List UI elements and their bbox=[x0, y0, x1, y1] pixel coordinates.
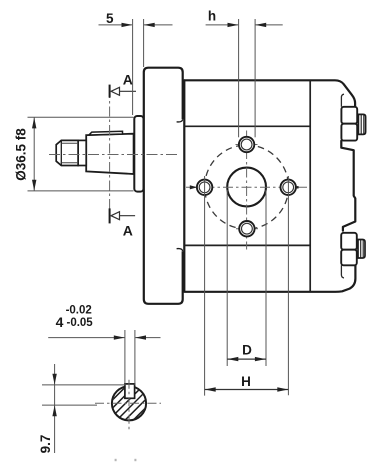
port hole left bbox=[197, 180, 212, 195]
extension line from bore right tangent down (D) bbox=[265, 190, 267, 366]
thread root lines bbox=[61, 142, 78, 144]
tapered shaft cone bbox=[86, 134, 133, 174]
centerline arrow at left hole bbox=[190, 185, 198, 189]
port hole bottom bbox=[239, 221, 254, 236]
cover edge break hook bottom bbox=[177, 249, 183, 252]
svg-text:-0.02: -0.02 bbox=[66, 305, 92, 317]
dimension H bbox=[205, 389, 289, 391]
dimension D bbox=[227, 358, 266, 360]
rear cover boundary vertical bbox=[309, 80, 311, 291]
svg-text:D: D bbox=[242, 343, 252, 358]
svg-text:A: A bbox=[123, 72, 133, 88]
centerline thick dash at right hole bbox=[296, 186, 299, 188]
port hole right bbox=[281, 180, 296, 195]
port hole top bbox=[239, 137, 254, 152]
port face: center port bore bbox=[227, 168, 266, 207]
bottom bolt stud bbox=[358, 240, 365, 259]
dimension Ø36.5 f8 bbox=[28, 117, 134, 191]
bolt boss edge bottom (with curl) bbox=[341, 265, 344, 278]
dimension 4 (keyway width, with tolerances) bbox=[48, 330, 160, 385]
body internal horizontal line upper bbox=[184, 125, 310, 127]
extension line from bore left tangent down (D) bbox=[226, 190, 228, 366]
section arrow bottom bbox=[113, 215, 135, 217]
dimension 5 (spigot width) bbox=[99, 19, 173, 115]
bolt boss edge top (with curl) bbox=[341, 94, 344, 107]
section A-A circle bbox=[112, 386, 146, 420]
shaft centerline bbox=[49, 154, 178, 156]
section centerline horizontal bbox=[95, 402, 161, 404]
mounting flange cover block bbox=[144, 68, 183, 304]
section arrow top bbox=[113, 90, 136, 92]
port face: centerline horizontal bbox=[186, 186, 308, 188]
extension line from right hole down (H) bbox=[287, 176, 289, 395]
svg-text:5: 5 bbox=[106, 11, 114, 26]
svg-text:H: H bbox=[241, 374, 251, 389]
shaft key (on taper) bbox=[89, 131, 123, 135]
port face: bolt circle (dashed) bbox=[205, 145, 289, 229]
pump body (side view right portion with port face) bbox=[184, 80, 355, 291]
svg-text:-0.05: -0.05 bbox=[66, 317, 93, 329]
section hatching bbox=[66, 378, 184, 430]
dimension h (port hole size) bbox=[206, 19, 283, 137]
svg-text:A: A bbox=[123, 223, 133, 239]
top bolt stud bbox=[358, 114, 365, 134]
top hex bolt head bbox=[341, 107, 357, 141]
threaded shaft end bbox=[56, 140, 78, 165]
section centerline vertical bbox=[128, 380, 130, 431]
shaft mid section bbox=[78, 140, 86, 165]
section keyway bbox=[125, 384, 135, 398]
section line A-A bbox=[109, 88, 111, 220]
bottom hole horizontal tick bbox=[236, 228, 258, 230]
svg-text:Ø36.5 f8: Ø36.5 f8 bbox=[14, 128, 29, 181]
svg-text:h: h bbox=[208, 8, 216, 23]
dimension 9.7 bbox=[42, 364, 125, 453]
cover edge break hook top bbox=[177, 119, 183, 122]
top hole horizontal tick bbox=[236, 144, 258, 146]
svg-text:9.7: 9.7 bbox=[38, 435, 53, 454]
flange spigot (pilot) bbox=[134, 116, 143, 192]
port face: centerline vertical bbox=[246, 131, 248, 250]
extension line from left hole down (H) bbox=[204, 176, 206, 396]
body internal horizontal line lower bbox=[184, 244, 310, 246]
bottom hex bolt head bbox=[341, 233, 357, 265]
faint cropped marks bottom bbox=[115, 459, 117, 461]
svg-text:4: 4 bbox=[56, 314, 64, 330]
